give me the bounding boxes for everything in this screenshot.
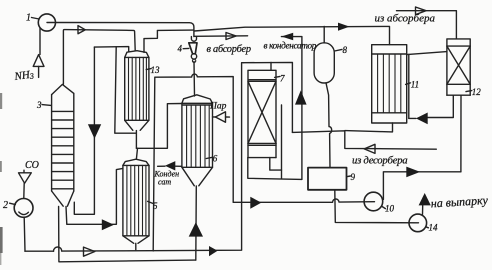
svg-text:13: 13 xyxy=(151,65,161,75)
svg-text:сат: сат xyxy=(158,178,171,187)
svg-text:9: 9 xyxy=(351,172,356,182)
svg-text:12: 12 xyxy=(472,87,482,97)
svg-text:10: 10 xyxy=(385,204,395,214)
svg-text:4: 4 xyxy=(178,44,183,54)
svg-text:из десорбера: из десорбера xyxy=(352,155,407,167)
svg-text:1: 1 xyxy=(26,13,31,24)
svg-text:7: 7 xyxy=(280,74,285,84)
svg-text:в конденсатор: в конденсатор xyxy=(264,41,317,51)
svg-text:11: 11 xyxy=(411,80,419,90)
svg-text:CO: CO xyxy=(25,160,39,171)
svg-text:5: 5 xyxy=(153,201,158,211)
svg-text:6: 6 xyxy=(213,154,218,164)
svg-text:из абсорбера: из абсорбера xyxy=(375,13,436,25)
svg-text:2: 2 xyxy=(3,200,8,211)
svg-text:8: 8 xyxy=(343,45,348,55)
svg-text:14: 14 xyxy=(429,223,439,233)
svg-text:в абсорбер: в абсорбер xyxy=(207,44,251,55)
svg-text:3: 3 xyxy=(36,100,42,110)
svg-text:Пар: Пар xyxy=(209,102,227,112)
